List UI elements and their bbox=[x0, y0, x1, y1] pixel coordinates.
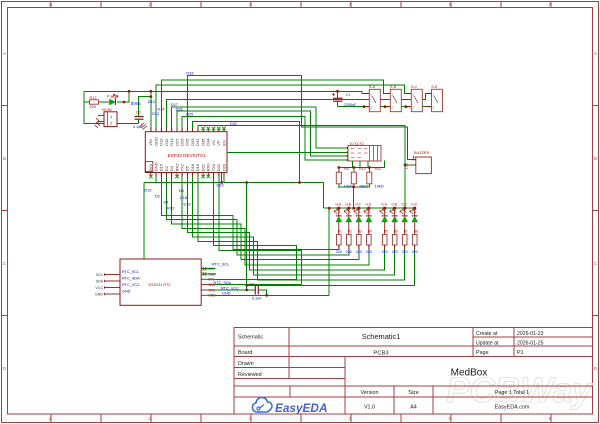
svg-text:3V3: 3V3 bbox=[148, 163, 153, 171]
svg-text:Schematic: Schematic bbox=[238, 335, 263, 341]
svg-text:G-D: G-D bbox=[411, 202, 418, 206]
wire GND pin drop bbox=[155, 173, 157, 183]
wire C1 top lead bbox=[337, 91, 339, 98]
svg-text:EN: EN bbox=[221, 140, 226, 146]
svg-text:Size: Size bbox=[408, 390, 419, 396]
svg-text:R6: R6 bbox=[394, 230, 398, 234]
svg-text:Reviewed: Reviewed bbox=[238, 372, 262, 378]
svg-text:GND: GND bbox=[222, 292, 231, 296]
svg-text:BUZZER: BUZZER bbox=[414, 151, 429, 155]
wire R8 pullup bottom lead bbox=[338, 184, 340, 187]
wire net D5 to R5 bbox=[187, 173, 384, 270]
wire power line horizontal bbox=[144, 182, 324, 184]
wire header K1 bottom stub bbox=[352, 161, 354, 168]
svg-text:Board: Board bbox=[238, 350, 252, 356]
ESP32 pin stubs top bbox=[151, 128, 224, 132]
RTC module box bbox=[95, 259, 216, 305]
wire buzzer pin2 tap bbox=[405, 164, 416, 166]
svg-text:D14: D14 bbox=[158, 107, 165, 111]
wire net D2 to R2 bbox=[167, 173, 349, 255]
wire net D4 to R3 bbox=[172, 173, 359, 260]
svg-text:D23: D23 bbox=[217, 183, 224, 187]
svg-text:D26: D26 bbox=[176, 107, 183, 111]
svg-text:DS3231 RTC: DS3231 RTC bbox=[149, 283, 172, 287]
svg-text:D12: D12 bbox=[152, 112, 159, 116]
svg-text:SCL: SCL bbox=[96, 273, 103, 277]
wire RTC SQW stub bbox=[201, 273, 215, 275]
svg-text:A: A bbox=[3, 51, 6, 56]
svg-text:G-A: G-A bbox=[381, 202, 388, 206]
wire connector pin1 stub bbox=[98, 115, 104, 117]
svg-text:GND: GND bbox=[95, 293, 103, 297]
svg-text:Schematic1: Schematic1 bbox=[362, 332, 401, 341]
EasyEDA logo bbox=[252, 397, 327, 415]
wire net D23 feed to R8 bbox=[247, 245, 415, 285]
wire net D14 to S-D bbox=[167, 94, 432, 132]
svg-text:D15: D15 bbox=[145, 189, 152, 193]
wire R8 pullup top lead bbox=[338, 168, 340, 173]
wire C2 bottom bbox=[138, 119, 140, 124]
wire C1 bottom lead bbox=[337, 101, 339, 107]
wire net D33 to buzzer bbox=[187, 75, 415, 159]
wire net 5VIN rail bbox=[84, 91, 369, 93]
svg-text:R5: R5 bbox=[384, 230, 388, 234]
wire net TX2 to R4 bbox=[182, 173, 369, 266]
svg-text:D33: D33 bbox=[190, 138, 195, 146]
svg-text:32K: 32K bbox=[208, 267, 215, 271]
svg-text:R1: R1 bbox=[338, 230, 342, 234]
wire header K3 bottom stub bbox=[367, 161, 369, 168]
wire net D22 to RTC SDA bbox=[219, 173, 302, 285]
svg-text:VCC: VCC bbox=[95, 286, 103, 290]
wire LED rail drop from power line bbox=[323, 183, 325, 209]
wire header K2 bottom stub bbox=[359, 161, 361, 168]
wire RTC SCL pin line bbox=[216, 278, 297, 280]
svg-text:B: B bbox=[3, 156, 6, 161]
svg-text:R8: R8 bbox=[414, 230, 418, 234]
svg-text:S-D: S-D bbox=[431, 85, 438, 89]
no-connect flags RTC 32K SQW bbox=[203, 267, 207, 276]
svg-text:PCB3: PCB3 bbox=[373, 350, 388, 356]
capacitor C1 bbox=[332, 93, 357, 107]
svg-text:D4: D4 bbox=[164, 201, 169, 205]
header K1 K2 K3 bbox=[348, 142, 381, 161]
svg-text:H-C: H-C bbox=[355, 202, 361, 206]
junction dots bbox=[123, 90, 417, 297]
svg-text:C2: C2 bbox=[136, 111, 141, 115]
svg-text:MedBox: MedBox bbox=[451, 368, 488, 379]
svg-text:R7: R7 bbox=[404, 230, 408, 234]
svg-text:ESP32 DEVKITV1: ESP32 DEVKITV1 bbox=[168, 153, 206, 158]
LED P-LED bbox=[107, 94, 118, 105]
svg-text:R4: R4 bbox=[368, 230, 372, 234]
svg-text:RTC_SCL: RTC_SCL bbox=[212, 263, 229, 267]
svg-text:VIN: VIN bbox=[148, 139, 153, 146]
svg-text:220: 220 bbox=[382, 250, 388, 254]
wire LED anode rail bbox=[324, 207, 415, 209]
svg-text:0.1uF: 0.1uF bbox=[133, 125, 143, 129]
wire net D27 to header K1 bbox=[172, 107, 348, 148]
wire LED rail to GND line bbox=[328, 208, 330, 295]
wire pullup top rail bbox=[338, 161, 385, 168]
svg-text:+5VIN: +5VIN bbox=[101, 108, 112, 112]
ESP32 pin stubs bottom bbox=[151, 173, 224, 177]
wire net D13 to S-B bbox=[161, 80, 390, 132]
svg-text:EasyEDA: EasyEDA bbox=[275, 401, 327, 415]
svg-text:10kΩ: 10kΩ bbox=[375, 185, 384, 189]
ESP32 pin names bottom row bbox=[148, 162, 226, 171]
svg-text:B: B bbox=[594, 156, 597, 161]
svg-text:D18: D18 bbox=[180, 196, 187, 200]
wire net D23 branch to header bbox=[222, 152, 348, 182]
title block bbox=[234, 328, 593, 415]
connector +5VIN bbox=[95, 108, 117, 128]
svg-text:RTC_VCC: RTC_VCC bbox=[221, 287, 239, 291]
svg-text:D: D bbox=[3, 366, 6, 371]
wire C2 top bbox=[139, 97, 151, 117]
switch S-B bbox=[385, 85, 402, 112]
wire R12 to LED bbox=[99, 101, 109, 103]
svg-text:Page 1 Total 1: Page 1 Total 1 bbox=[495, 390, 529, 396]
svg-text:Update at: Update at bbox=[476, 340, 499, 346]
svg-text:10kΩ: 10kΩ bbox=[359, 185, 368, 189]
svg-text:R3: R3 bbox=[358, 230, 362, 234]
svg-text:S-C: S-C bbox=[411, 85, 418, 89]
svg-text:A: A bbox=[594, 51, 597, 56]
svg-text:P1: P1 bbox=[517, 350, 524, 356]
svg-text:10kΩ: 10kΩ bbox=[344, 185, 353, 189]
wire R12 loop left vertical bbox=[84, 91, 139, 123]
svg-text:D5: D5 bbox=[179, 189, 184, 193]
LED H-A with resistor R1 bbox=[334, 202, 342, 254]
LED H-C with resistor R3 bbox=[354, 202, 362, 254]
svg-text:VCC: VCC bbox=[208, 288, 215, 292]
wire pullup rail to LED rail bbox=[353, 187, 355, 208]
svg-text:R2: R2 bbox=[348, 230, 352, 234]
svg-text:220: 220 bbox=[356, 250, 362, 254]
svg-text:RX0: RX0 bbox=[206, 163, 211, 172]
svg-text:C: C bbox=[594, 261, 597, 266]
svg-text:C: C bbox=[3, 261, 6, 266]
svg-text:H-A: H-A bbox=[336, 202, 342, 206]
svg-text:0.1uF: 0.1uF bbox=[252, 296, 262, 300]
svg-text:5VIN: 5VIN bbox=[131, 101, 141, 106]
svg-text:RTC_SDA: RTC_SDA bbox=[122, 277, 140, 281]
svg-text:SQW: SQW bbox=[208, 272, 216, 276]
svg-text:Drawn: Drawn bbox=[238, 361, 254, 367]
svg-text:RX2: RX2 bbox=[167, 207, 174, 211]
svg-text:2026-01-23: 2026-01-23 bbox=[517, 331, 544, 337]
svg-text:D25: D25 bbox=[186, 113, 193, 117]
svg-text:D2: D2 bbox=[155, 195, 160, 199]
wire R11 pullup top lead bbox=[368, 168, 370, 173]
svg-text:SDA: SDA bbox=[96, 280, 104, 284]
svg-text:2200uF: 2200uF bbox=[344, 103, 358, 107]
pullup resistor R8 bbox=[336, 167, 353, 189]
svg-text:G-B: G-B bbox=[391, 202, 397, 206]
svg-text:220: 220 bbox=[346, 250, 352, 254]
svg-text:S-B: S-B bbox=[390, 85, 397, 89]
svg-text:220: 220 bbox=[336, 250, 342, 254]
svg-text:220: 220 bbox=[392, 250, 398, 254]
svg-text:Create at: Create at bbox=[476, 331, 498, 337]
LED G-D with resistor R8 bbox=[410, 202, 418, 254]
svg-text:D33: D33 bbox=[186, 72, 193, 76]
no-connect flags bottom pins bbox=[149, 175, 210, 179]
svg-text:2026-01-25: 2026-01-25 bbox=[517, 340, 544, 346]
svg-text:220: 220 bbox=[366, 250, 372, 254]
ESP32 pin names top row bbox=[148, 137, 226, 146]
svg-text:D18: D18 bbox=[190, 163, 195, 171]
svg-text:P-LED: P-LED bbox=[107, 94, 118, 98]
wire net D12 to header K3 bbox=[182, 116, 348, 160]
buzzer LS2 bbox=[405, 151, 432, 174]
svg-text:D27: D27 bbox=[171, 103, 178, 107]
wire net GND riser to S-C bbox=[156, 85, 411, 132]
svg-text:D13: D13 bbox=[148, 100, 155, 104]
svg-text:RTC_SDA: RTC_SDA bbox=[214, 281, 232, 285]
LED H-B with resistor R2 bbox=[344, 202, 352, 254]
pullup resistor R11 bbox=[367, 167, 384, 189]
svg-text:EasyEDA.com: EasyEDA.com bbox=[495, 405, 530, 411]
svg-text:D14: D14 bbox=[169, 138, 174, 146]
svg-text:220: 220 bbox=[402, 250, 408, 254]
wire R10 pullup bottom lead bbox=[353, 184, 355, 187]
LED G-C with resistor R7 bbox=[400, 202, 408, 254]
svg-text:GND: GND bbox=[122, 290, 131, 294]
svg-text:C3: C3 bbox=[250, 282, 255, 286]
svg-text:D: D bbox=[594, 366, 597, 371]
LED G-B with resistor R6 bbox=[390, 202, 398, 254]
wire R11 pullup bottom lead bbox=[368, 184, 370, 187]
wire net D15 to R1 bbox=[161, 173, 338, 250]
switch S-C bbox=[406, 85, 423, 112]
svg-text:R11: R11 bbox=[375, 167, 381, 171]
svg-text:Page: Page bbox=[476, 350, 489, 356]
svg-text:H-D: H-D bbox=[365, 202, 371, 206]
svg-text:K1 K2 K3: K1 K2 K3 bbox=[350, 142, 364, 146]
capacitor C3 bbox=[250, 282, 263, 300]
wire connector pin2 jog bbox=[98, 122, 104, 124]
wire net D23 drop bbox=[223, 173, 225, 183]
capacitor C2 bbox=[133, 111, 147, 130]
svg-text:D32: D32 bbox=[230, 122, 237, 126]
svg-text:C1: C1 bbox=[346, 93, 351, 97]
svg-text:D34: D34 bbox=[206, 138, 211, 146]
svg-text:220: 220 bbox=[90, 105, 96, 109]
wire power left drop to RTC bbox=[143, 183, 145, 260]
svg-text:V1.0: V1.0 bbox=[364, 405, 375, 411]
pullup resistor R10 bbox=[351, 167, 368, 189]
wire pullup bottom rail bbox=[338, 186, 370, 188]
net labels blue bbox=[131, 72, 239, 296]
wire LED to 5VIN node bbox=[117, 91, 129, 102]
wire net D32 to LED rail bbox=[198, 126, 405, 209]
svg-text:Version: Version bbox=[361, 390, 379, 396]
svg-text:LS2: LS2 bbox=[405, 163, 409, 169]
wire RTC VCC line to C3 bbox=[216, 289, 256, 291]
LED G-A with resistor R5 bbox=[380, 202, 388, 254]
svg-text:R8: R8 bbox=[344, 167, 349, 171]
resistor R12 bbox=[90, 96, 99, 109]
wire R10 pullup top lead bbox=[353, 168, 355, 173]
svg-text:R12: R12 bbox=[90, 96, 97, 100]
LED H-D with resistor R4 bbox=[364, 202, 372, 254]
wire R12 input bbox=[84, 101, 90, 103]
wire switch common rail bbox=[338, 106, 432, 108]
wire net TX0 to RTC SCL bbox=[214, 173, 297, 280]
wire C3 right hook bbox=[258, 290, 266, 295]
wire header left pins bbox=[340, 147, 348, 149]
switch S-D bbox=[426, 85, 443, 112]
svg-text:G-C: G-C bbox=[401, 202, 408, 206]
ESP32 module U1 bbox=[145, 132, 227, 173]
svg-text:220: 220 bbox=[412, 250, 418, 254]
svg-text:RTC_VCC: RTC_VCC bbox=[122, 283, 140, 287]
wire net D19 to R7 bbox=[198, 173, 405, 281]
wire power vertical to RTC VCC bbox=[246, 183, 248, 291]
svg-text:S-A: S-A bbox=[369, 85, 376, 89]
svg-text:A4: A4 bbox=[410, 405, 417, 411]
no-connect flags top pins bbox=[201, 127, 226, 131]
wire net D18 to R6 bbox=[193, 173, 395, 276]
svg-text:D23: D23 bbox=[221, 163, 226, 171]
svg-text:GND: GND bbox=[208, 294, 216, 298]
svg-text:H-B: H-B bbox=[346, 202, 352, 206]
wire RTC GND line bbox=[216, 294, 330, 296]
svg-text:RTC_SCL: RTC_SCL bbox=[122, 270, 139, 274]
wire RTC 32K stub bbox=[201, 268, 215, 270]
wire VIN riser bbox=[150, 91, 152, 131]
svg-text:D4: D4 bbox=[169, 165, 174, 171]
wire net D25 to LED anode rail bbox=[193, 122, 300, 183]
svg-text:D19: D19 bbox=[184, 202, 191, 206]
svg-text:R10: R10 bbox=[359, 167, 366, 171]
wire net D26 to header K2 bbox=[177, 111, 348, 156]
wire RTC SDA pin line bbox=[216, 284, 302, 286]
switch S-A bbox=[364, 85, 381, 112]
